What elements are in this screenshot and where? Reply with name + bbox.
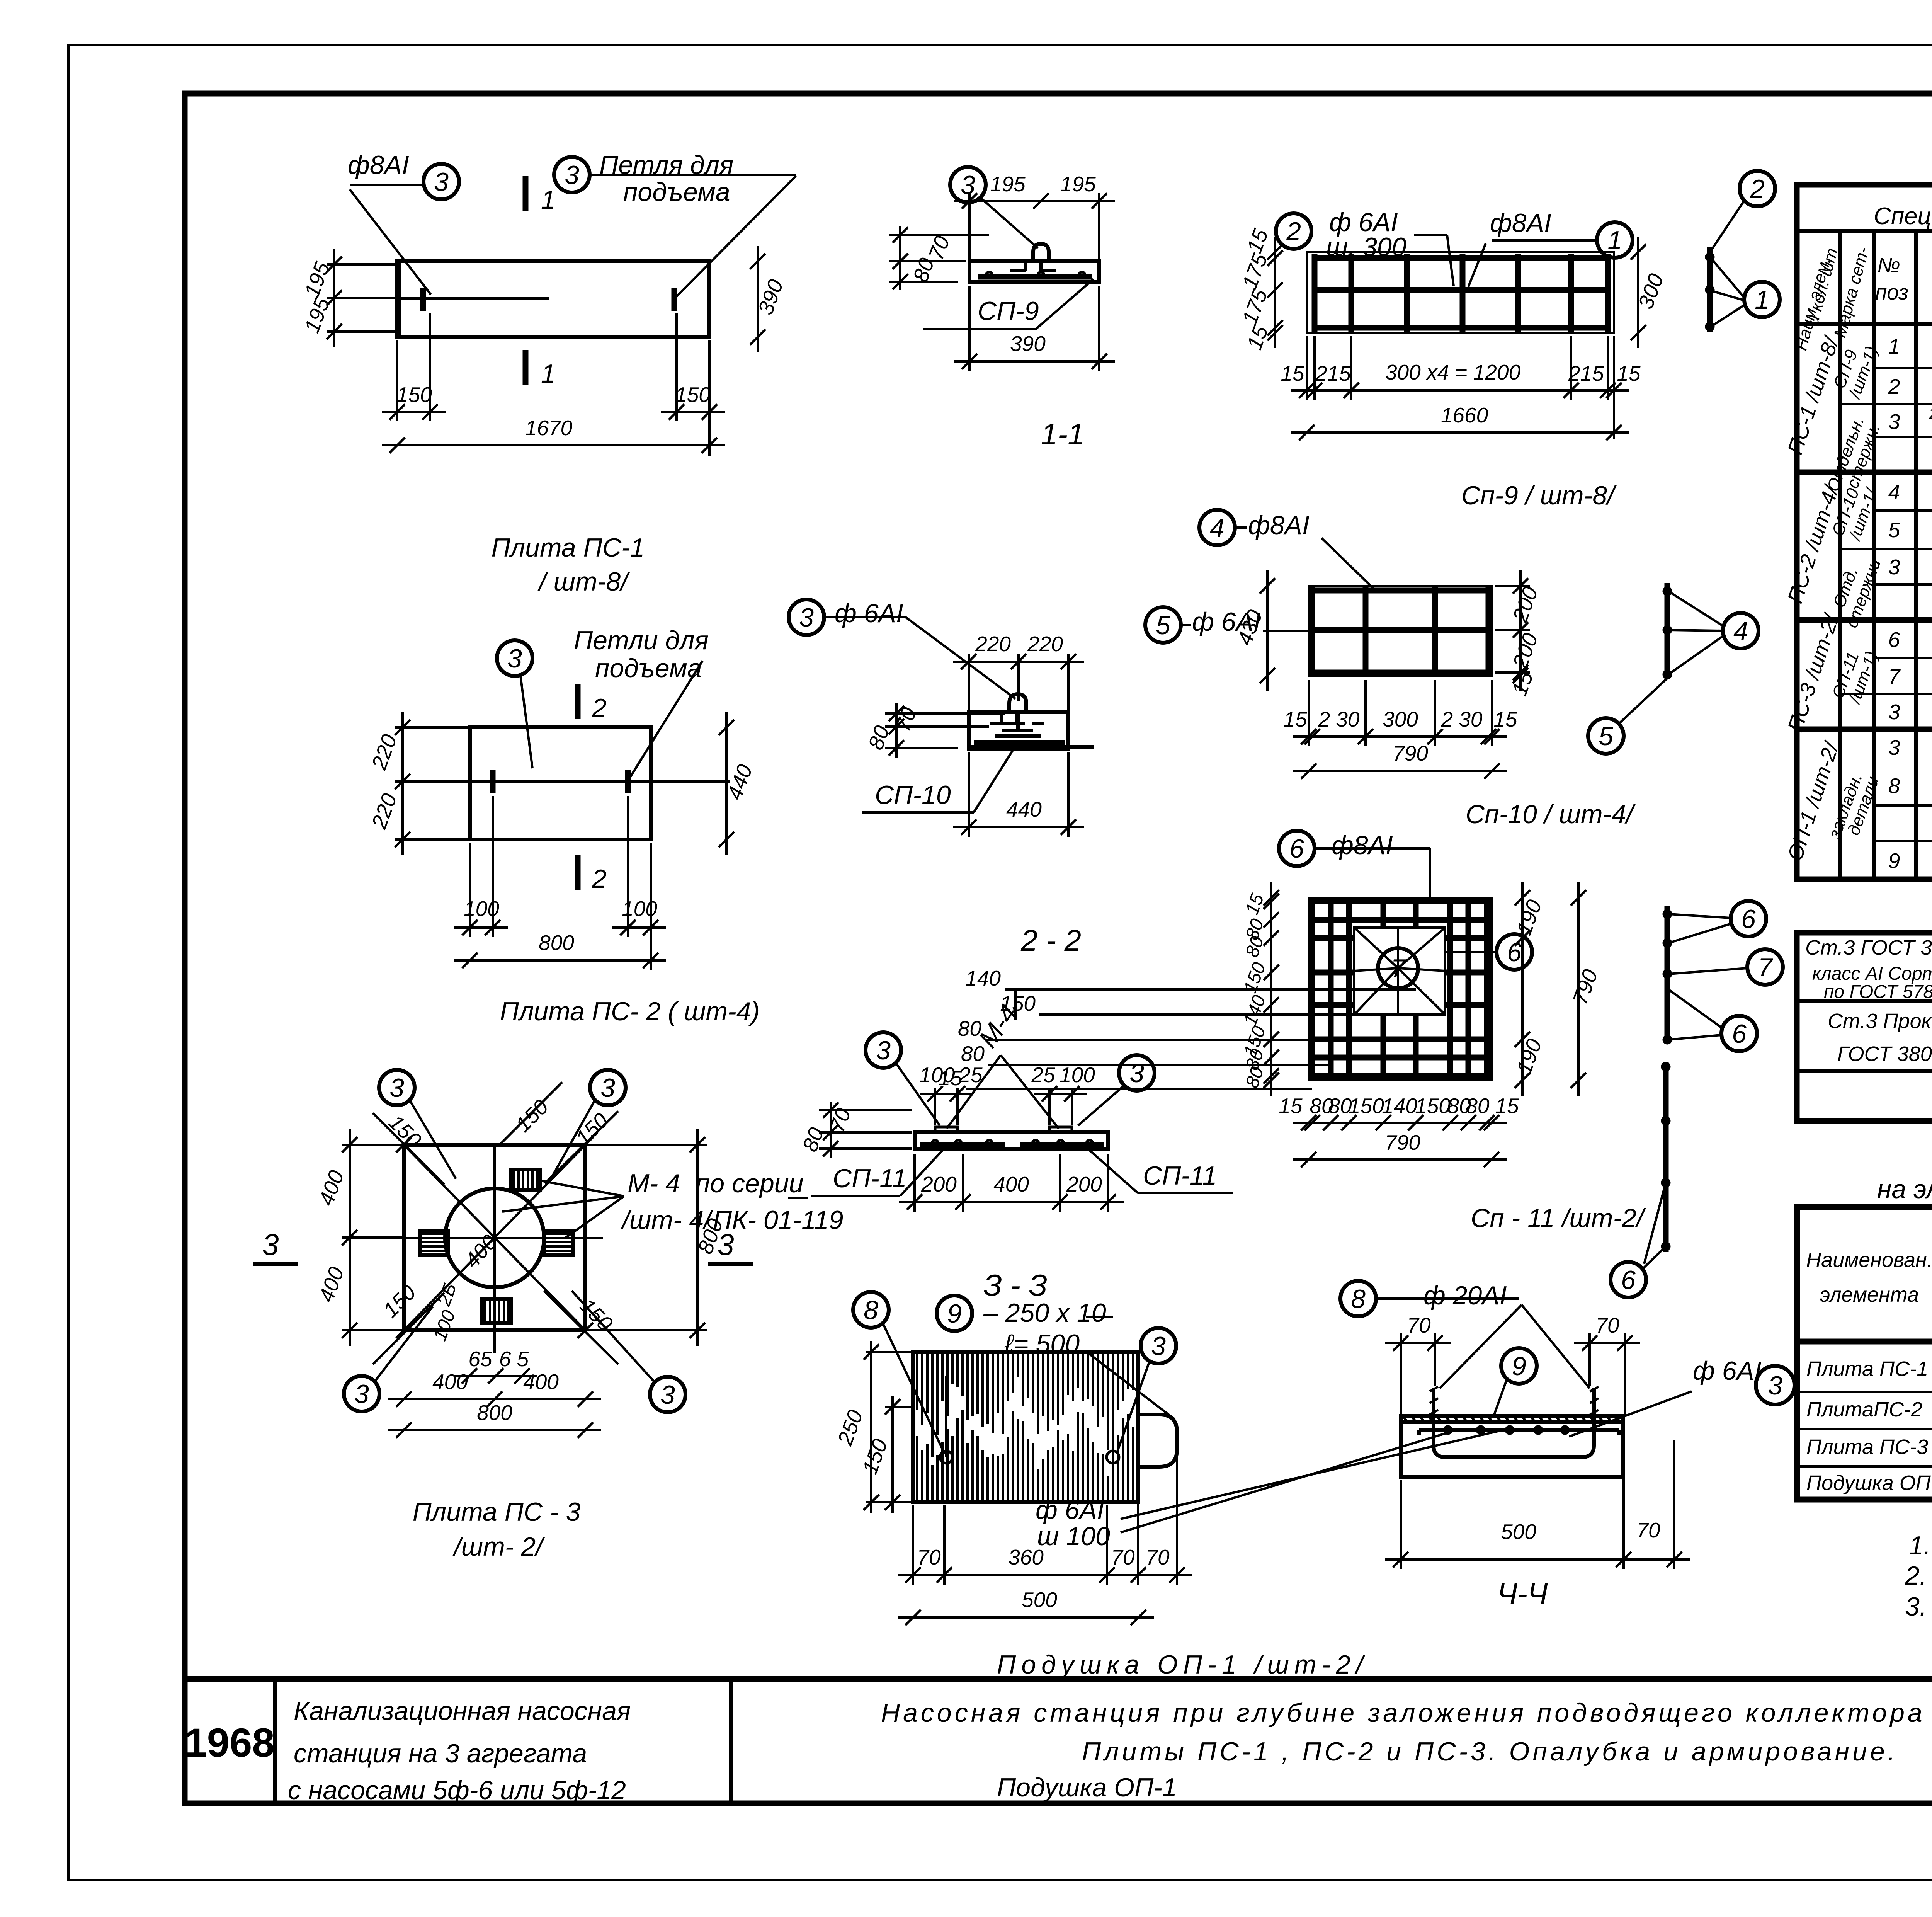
callout circle 6 top <box>1731 901 1766 936</box>
svg-text:150: 150 <box>511 1095 553 1137</box>
bar detail lower part <box>1663 1062 1669 1252</box>
callout circle 4 <box>1723 613 1759 649</box>
svg-text:400: 400 <box>993 1172 1029 1196</box>
svg-text:/шт- 2/: /шт- 2/ <box>452 1532 545 1561</box>
svg-text:Подушка ОП-1: Подушка ОП-1 <box>997 1773 1177 1802</box>
callout circle 6 lower bar <box>1611 1262 1646 1297</box>
svg-text:65: 65 <box>468 1347 492 1371</box>
svg-text:ℓ= 500: ℓ= 500 <box>1004 1329 1080 1359</box>
SP-10 mesh vertical bars <box>1310 587 1315 674</box>
callout circle 5 <box>1588 718 1624 754</box>
svg-text:ф 20АI: ф 20АI <box>1423 1281 1507 1310</box>
svg-text:7: 7 <box>1758 953 1773 982</box>
materials table data row lines <box>1797 1391 1932 1393</box>
svg-text:140: 140 <box>1382 1094 1417 1118</box>
svg-text:Плиты ПС-1 , ПС-2 и ПС-3: Плиты ПС-1 , ПС-2 и ПС-3. Опалубка и арм… <box>1082 1737 1898 1766</box>
SP-10 dim 790 <box>1293 770 1507 772</box>
svg-text:190: 190 <box>1512 1035 1546 1077</box>
svg-text:70: 70 <box>1146 1545 1170 1569</box>
svg-text:ПС-3 /шт-2/: ПС-3 /шт-2/ <box>1783 610 1844 735</box>
svg-text:15: 15 <box>1617 361 1641 385</box>
svg-text:140: 140 <box>1240 993 1270 1029</box>
svg-text:4: 4 <box>1733 616 1748 646</box>
svg-text:15: 15 <box>1242 891 1268 918</box>
svg-text:СП-11: СП-11 <box>833 1164 907 1193</box>
section 2-2 plate <box>969 712 1068 749</box>
svg-text:ОП-1 /шт-2/: ОП-1 /шт-2/ <box>1782 738 1844 864</box>
svg-text:80: 80 <box>1242 933 1268 960</box>
dim 150 left bottom PS-1 <box>382 411 446 413</box>
svg-text:СП-10: СП-10 <box>875 780 951 810</box>
svg-text:5: 5 <box>1599 722 1613 751</box>
svg-text:25: 25 <box>1031 1063 1055 1087</box>
svg-text:1: 1 <box>541 185 556 215</box>
svg-text:подъема: подъема <box>595 654 702 683</box>
svg-text:300: 300 <box>1383 707 1418 731</box>
svg-text:300 х4 = 1200: 300 х4 = 1200 <box>1385 360 1521 384</box>
svg-text:по серии: по серии <box>696 1169 803 1198</box>
svg-text:220: 220 <box>1027 632 1063 656</box>
svg-text:3: 3 <box>1768 1371 1782 1400</box>
dim 800 below PS-3 <box>388 1429 601 1431</box>
section 4-4 concrete block <box>1401 1416 1623 1477</box>
svg-text:400: 400 <box>523 1370 559 1394</box>
svg-text:200: 200 <box>921 1172 957 1196</box>
title block top line <box>185 1676 1932 1682</box>
svg-text:440: 440 <box>1006 797 1042 821</box>
dim 150 top center PS-3 <box>498 1082 562 1146</box>
svg-text:8: 8 <box>1351 1284 1366 1314</box>
svg-text:15: 15 <box>1281 361 1304 385</box>
svg-text:2 - 2: 2 - 2 <box>1020 923 1081 957</box>
section mark 1 bottom <box>523 350 529 385</box>
svg-text:150: 150 <box>378 1280 420 1322</box>
section mark 2 bottom <box>575 855 581 890</box>
svg-text:400: 400 <box>314 1263 349 1305</box>
svg-text:140: 140 <box>965 966 1001 990</box>
svg-text:3: 3 <box>660 1380 675 1410</box>
svg-text:ПлитаПС-2: ПлитаПС-2 <box>1806 1398 1922 1421</box>
svg-text:150: 150 <box>396 383 432 407</box>
SP-9 left dims 15 175 175 15 <box>1274 237 1276 348</box>
svg-text:3: 3 <box>262 1227 279 1262</box>
dims 65 65 below PS-3 <box>454 1375 537 1377</box>
svg-text:3: 3 <box>876 1036 891 1065</box>
SP-9 dim 1660 <box>1291 431 1629 434</box>
SP-11 dim 790 below <box>1293 1158 1507 1161</box>
callout 6 f8AI top left of SP-11 <box>1279 831 1315 866</box>
spec table marka sub lines <box>1840 403 1874 405</box>
svg-text:70: 70 <box>1111 1545 1135 1569</box>
diagonal dims 150 corners PS-3 <box>373 1113 444 1185</box>
svg-text:70: 70 <box>917 1545 941 1569</box>
svg-text:150: 150 <box>675 383 711 407</box>
SP-10 bottom dims 15 230 300 230 15 <box>1293 735 1507 738</box>
leader line to right loop <box>676 176 796 297</box>
svg-text:Наименован.: Наименован. <box>1806 1248 1932 1272</box>
spec table header band lines <box>1797 229 1932 233</box>
svg-text:800: 800 <box>539 931 574 955</box>
plate PS-3 circle opening 400 <box>445 1188 544 1287</box>
svg-text:2 30: 2 30 <box>1318 707 1359 731</box>
section 3-3 bottom meshes <box>920 1142 1005 1148</box>
dims 80 70 left of 2-2 <box>885 712 1005 715</box>
dim 150 right bottom PS-1 <box>661 411 725 413</box>
SP-11 mesh vertical bars <box>1310 899 1315 1078</box>
svg-text:ш 100: ш 100 <box>1037 1522 1110 1551</box>
section 2-2 loop <box>995 694 1041 736</box>
SP-11 bottom dims 15 80 80 150 140 150 80 80 15 <box>1293 1122 1507 1124</box>
svg-text:3: 3 <box>1888 555 1900 579</box>
svg-text:80: 80 <box>958 1016 982 1040</box>
svg-text:Подушка ОП-1 /шт-2/: Подушка ОП-1 /шт-2/ <box>997 1650 1369 1679</box>
svg-text:3: 3 <box>507 644 522 673</box>
svg-text:2Б: 2Б <box>434 1280 461 1309</box>
svg-text:790: 790 <box>1568 966 1602 1008</box>
svg-text:Плита ПС-3: Плита ПС-3 <box>1806 1435 1928 1459</box>
section 4-4 top plate hatched <box>1401 1420 1623 1424</box>
svg-text:6: 6 <box>1289 834 1304 863</box>
svg-text:ф 6АI: ф 6АI <box>1036 1495 1104 1525</box>
svg-text:15: 15 <box>1495 1094 1519 1118</box>
svg-text:№: № <box>1877 253 1900 277</box>
callout circle 6 upper bar bottom <box>1721 1016 1757 1051</box>
SP-11 left rotated dims <box>1270 882 1272 1096</box>
svg-text:СП-9: СП-9 <box>978 296 1039 326</box>
svg-text:3: 3 <box>389 1073 404 1103</box>
leader lines PS-2 loops <box>520 676 532 768</box>
svg-text:215: 215 <box>1315 361 1351 385</box>
svg-text:70: 70 <box>1636 1518 1660 1542</box>
svg-text:5: 5 <box>1156 611 1170 640</box>
dims 70 80 left of 3-3 <box>819 1109 912 1111</box>
podushka dim 500 <box>898 1616 1154 1619</box>
section 4-4 hook hatches <box>1430 1387 1438 1415</box>
SP-10 right dims 200 200 15 <box>1519 570 1522 691</box>
callout 6 right middle of SP-11 <box>1497 934 1532 970</box>
plate PS-1 outline <box>397 261 709 337</box>
podushka OP-1 right hook plate <box>1138 1415 1177 1467</box>
plate PS-3 diagonals <box>404 1145 585 1330</box>
svg-text:1660: 1660 <box>1441 403 1488 427</box>
svg-text:z=40: z=40 <box>1929 403 1932 424</box>
svg-text:2: 2 <box>1286 217 1301 246</box>
dim 220 220 left of PS-2 <box>401 712 404 855</box>
M-4 hatched plate bottom <box>482 1299 511 1323</box>
svg-text:790: 790 <box>1385 1130 1420 1154</box>
svg-text:9: 9 <box>947 1299 962 1328</box>
svg-text:220: 220 <box>367 790 401 832</box>
svg-text:– 250 х 10: – 250 х 10 <box>983 1298 1106 1328</box>
bar detail vertical bar pos1 <box>1707 247 1713 332</box>
section 3-3 M-4 plates embedded <box>935 1127 957 1132</box>
svg-text:Ст.3 ГОСТ 380-50: Ст.3 ГОСТ 380-50 <box>1805 936 1932 959</box>
svg-text:1670: 1670 <box>525 416 573 440</box>
section 1-1 plate <box>969 261 1099 282</box>
svg-text:Плита ПС-1: Плита ПС-1 <box>492 533 645 562</box>
leader line to left loop <box>350 189 431 295</box>
svg-text:Сп - 11 /шт-2/: Сп - 11 /шт-2/ <box>1471 1204 1646 1233</box>
svg-text:Спецификация арматуры на 1 э: Спецификация арматуры на 1 элемент <box>1874 203 1932 230</box>
SP-10 left dim 430 <box>1266 570 1269 691</box>
svg-text:390: 390 <box>1010 332 1046 356</box>
callout 2 f6AI sh300 for SP-9 <box>1276 213 1311 249</box>
svg-text:2: 2 <box>592 864 607 894</box>
svg-text:4: 4 <box>1888 480 1900 504</box>
SP-11 mesh outline <box>1309 898 1492 1080</box>
svg-text:9: 9 <box>1888 849 1900 873</box>
svg-text:200: 200 <box>1508 583 1543 625</box>
svg-text:2: 2 <box>1888 375 1900 398</box>
svg-text:на элементы, показанные на: на элементы, показанные на данном листе <box>1877 1175 1932 1204</box>
svg-text:195: 195 <box>990 172 1026 196</box>
callout f20AI section 4-4 <box>1340 1281 1376 1316</box>
materials table outer box <box>1797 1207 1932 1500</box>
dim 220 220 above 2-2 <box>953 661 1084 663</box>
svg-text:800: 800 <box>477 1401 512 1425</box>
dim 390 right of PS-1 <box>757 246 759 352</box>
svg-text:ПС-1 /шт-8/: ПС-1 /шт-8/ <box>1783 332 1844 457</box>
svg-text:ф8АI: ф8АI <box>348 150 409 180</box>
callout circle 3 PS-3 bottom left <box>344 1376 379 1411</box>
section mark 1 top <box>523 176 529 211</box>
svg-text:Петли для: Петли для <box>574 626 709 655</box>
svg-text:З - З: З - З <box>983 1268 1047 1302</box>
svg-text:3: 3 <box>1888 410 1900 434</box>
svg-text:5: 5 <box>1888 518 1900 542</box>
svg-text:80: 80 <box>961 1042 985 1066</box>
svg-text:элемента: элемента <box>1820 1283 1919 1306</box>
svg-text:поз: поз <box>1875 280 1908 304</box>
callout circle 9 podushka -250x10 <box>937 1296 972 1331</box>
SP-11 mesh opening <box>1354 928 1445 1015</box>
svg-text:6: 6 <box>1888 628 1900 652</box>
svg-text:1: 1 <box>541 359 556 388</box>
dims 80 70 left of section 1-1 <box>889 234 989 236</box>
podushka left dims 150 250 <box>866 1351 912 1353</box>
SP-9 bottom dims 15 215 300x4 215 15 <box>1291 389 1629 392</box>
callout circle 1 fan <box>1744 282 1780 317</box>
callout circle 3 podushka right <box>1141 1328 1176 1364</box>
svg-text:ф 6АI: ф 6АI <box>835 599 903 628</box>
svg-text:150: 150 <box>857 1435 892 1477</box>
svg-text:15: 15 <box>1242 226 1273 256</box>
svg-text:/ шт-8/: / шт-8/ <box>537 567 630 596</box>
callout circle 8 podushka <box>853 1292 889 1328</box>
dims 500 70 below 4-4 <box>1385 1558 1690 1561</box>
svg-text:70: 70 <box>891 704 921 735</box>
svg-text:3: 3 <box>799 603 814 632</box>
svg-text:175: 175 <box>1237 286 1272 327</box>
svg-text:1: 1 <box>1755 285 1769 315</box>
dim 390 below section 1-1 <box>954 360 1115 363</box>
svg-text:6 5: 6 5 <box>499 1347 529 1371</box>
svg-text:200: 200 <box>1066 1172 1102 1196</box>
dim 70 top left 4-4 <box>1385 1342 1451 1344</box>
svg-text:400: 400 <box>432 1370 468 1394</box>
svg-text:по ГОСТ 5781-61: по ГОСТ 5781-61 <box>1824 982 1932 1002</box>
section 3-3 plate <box>915 1132 1108 1149</box>
svg-text:6: 6 <box>1621 1265 1636 1295</box>
svg-text:2: 2 <box>1750 174 1765 204</box>
svg-text:3. В плите ПС-3 должны: 3. В плите ПС-3 должны быть установлены … <box>1905 1592 1932 1621</box>
svg-text:15: 15 <box>939 1066 963 1090</box>
svg-text:215: 215 <box>1568 361 1604 385</box>
f20AI leader roof lines <box>1440 1305 1522 1388</box>
svg-text:1968: 1968 <box>184 1720 275 1765</box>
section mark 2 top <box>575 684 581 719</box>
podushka bottom dims 70 360 70 70 <box>898 1574 1192 1576</box>
spec table thick group lines <box>1797 470 1932 475</box>
callout circle 2 bar top <box>1740 171 1775 206</box>
svg-text:6: 6 <box>1732 1019 1747 1049</box>
SP-9 mesh vertical bars <box>1312 254 1318 332</box>
svg-text:15: 15 <box>1242 322 1273 353</box>
plate PS-1 center line and lifting loops <box>397 297 549 300</box>
svg-text:400: 400 <box>314 1167 349 1209</box>
svg-text:ш. 300: ш. 300 <box>1326 232 1406 262</box>
svg-text:подъема: подъема <box>623 177 730 207</box>
svg-text:3: 3 <box>961 170 975 200</box>
svg-text:ф 6АI: ф 6АI <box>1693 1356 1762 1386</box>
svg-text:3: 3 <box>600 1073 615 1103</box>
svg-text:ф8АI: ф8АI <box>1248 511 1310 540</box>
callout circle 3 section 3-3 right <box>1119 1055 1155 1091</box>
svg-text:Ч-Ч: Ч-Ч <box>1497 1577 1548 1611</box>
svg-text:7: 7 <box>1888 664 1901 688</box>
dim 440 below 2-2 <box>953 826 1084 828</box>
svg-text:1: 1 <box>1888 334 1900 358</box>
svg-text:Подушка ОП-1: Подушка ОП-1 <box>1806 1471 1932 1495</box>
dim 800 right of PS-3 <box>696 1129 699 1346</box>
dim 400 400 below PS-3 <box>388 1398 601 1400</box>
svg-text:6: 6 <box>1741 904 1756 934</box>
svg-text:2: 2 <box>592 693 607 723</box>
svg-text:100: 100 <box>430 1308 459 1344</box>
svg-text:Плита ПС-1: Плита ПС-1 <box>1806 1357 1928 1381</box>
svg-text:3: 3 <box>354 1379 369 1409</box>
svg-text:3: 3 <box>1888 700 1900 724</box>
svg-text:175: 175 <box>1237 250 1272 292</box>
svg-text:9: 9 <box>1512 1352 1526 1381</box>
svg-text:3: 3 <box>565 160 579 190</box>
svg-text:Насосная станция при глубин: Насосная станция при глубине заложения п… <box>881 1698 1932 1728</box>
svg-text:1: 1 <box>1607 226 1622 255</box>
dims 100 100 below PS-2 <box>454 926 508 929</box>
svg-text:220: 220 <box>367 731 401 773</box>
svg-text:ф8АI: ф8АI <box>1490 208 1551 238</box>
svg-text:3: 3 <box>434 167 449 197</box>
plate PS-2 center line and loops <box>470 780 730 783</box>
svg-text:Сп-9 / шт-8/: Сп-9 / шт-8/ <box>1461 481 1617 510</box>
svg-text:195: 195 <box>299 294 334 336</box>
svg-text:М- 4: М- 4 <box>628 1169 680 1198</box>
callout 5 f6AI for SP-10 <box>1145 607 1181 643</box>
svg-text:Плита ПС - 3: Плита ПС - 3 <box>413 1497 581 1527</box>
callout 3 f6AI for 2-2 <box>789 599 824 635</box>
svg-text:Ст.3 Прокат: Ст.3 Прокат <box>1828 1010 1932 1033</box>
svg-text:Канализационная насосная: Канализационная насосная <box>294 1696 631 1726</box>
dim 195 195 left of PS-1 <box>333 249 335 347</box>
callout circle 3 PS-1 left <box>423 164 459 199</box>
SP-11 right dims 190 790 190 <box>1521 882 1524 1096</box>
M-4 hatched plate top <box>511 1170 540 1190</box>
plate PS-3 outline <box>404 1145 585 1330</box>
bar detail pos 6 7 <box>1665 906 1670 1044</box>
podushka OP-1 hatched body <box>913 1352 1138 1502</box>
svg-text:15: 15 <box>1283 707 1307 731</box>
title block divider lines <box>273 1679 277 1803</box>
plate PS-2 outline <box>470 727 651 839</box>
svg-text:3: 3 <box>1129 1059 1144 1088</box>
svg-text:150: 150 <box>1415 1094 1451 1118</box>
M-4 hatched plate left <box>420 1231 448 1255</box>
section 2-2 bottom mesh lines <box>974 740 1065 746</box>
dims 200 400 200 below 3-3 <box>899 1201 1124 1203</box>
svg-text:80: 80 <box>798 1124 828 1155</box>
svg-text:8: 8 <box>864 1296 878 1325</box>
SP-9 right dim 300 <box>1637 237 1639 348</box>
svg-text:220: 220 <box>975 632 1011 656</box>
dim 195 195 above section 1-1 <box>954 200 1115 202</box>
spec table vertical column lines <box>1838 231 1842 879</box>
svg-text:станция на 3 агрегата: станция на 3 агрегата <box>294 1739 587 1768</box>
spec table horizontal row lines <box>1874 367 1932 369</box>
bar detail pos callout 4 5 <box>1665 583 1670 679</box>
SP-10 mesh horizontal bars <box>1312 588 1490 594</box>
svg-text:80: 80 <box>1466 1094 1490 1118</box>
svg-text:15: 15 <box>1493 707 1517 731</box>
svg-text:Плита ПС- 2 ( шт-4): Плита ПС- 2 ( шт-4) <box>500 997 760 1026</box>
svg-text:150: 150 <box>1349 1094 1384 1118</box>
callout circle 3 section 1-1 <box>950 167 986 203</box>
svg-text:3: 3 <box>1888 735 1900 759</box>
section 1-1 bottom reinforcement <box>978 274 1092 280</box>
SP-10 mesh outline <box>1309 586 1492 676</box>
SP-11 circle 7 fan in opening <box>1378 948 1418 988</box>
dim 1670 PS-1 <box>382 444 725 446</box>
PS-3 crosshair lines <box>404 1237 603 1239</box>
svg-text:ПС-2 /шт-4/: ПС-2 /шт-4/ <box>1783 481 1844 606</box>
callout circle 3 PS-3 top right <box>590 1070 626 1105</box>
SP-9 mesh horizontal bars <box>1312 255 1609 261</box>
dim 800 below PS-2 <box>454 959 666 962</box>
M-4 hatched plate right <box>544 1231 573 1255</box>
svg-text:790: 790 <box>1393 741 1428 765</box>
svg-text:СП-11: СП-11 <box>1143 1161 1217 1190</box>
SP-11 mesh horizontal bars <box>1310 899 1490 904</box>
svg-text:1. Маркировочные планы плит: 1. Маркировочные планы плит см. листы АС… <box>1909 1531 1932 1560</box>
svg-text:2 30: 2 30 <box>1440 707 1482 731</box>
callout 4 f8AI for SP-10 <box>1199 510 1235 545</box>
svg-text:70: 70 <box>924 233 954 263</box>
dim 70 top right 4-4 <box>1574 1342 1640 1344</box>
dim 400 400 left of PS-3 <box>349 1129 351 1346</box>
callout circle 9 section 4-4 <box>1501 1348 1537 1384</box>
callout circle 3 PS-3 bottom right <box>650 1377 685 1412</box>
svg-text:с насосами 5ф-6 или 5ф-12: с насосами 5ф-6 или 5ф-12 <box>288 1776 626 1805</box>
callout circle 3 section 3-3 left <box>866 1032 901 1068</box>
svg-text:500: 500 <box>1022 1588 1057 1612</box>
svg-text:Сп-10 / шт-4/: Сп-10 / шт-4/ <box>1466 800 1636 829</box>
svg-text:70: 70 <box>1595 1313 1619 1337</box>
svg-text:2. Указания по эл. сварке а: 2. Указания по эл. сварке арматурных сет… <box>1905 1561 1932 1590</box>
svg-text:4: 4 <box>1210 513 1225 543</box>
callout circle 3 PS-2 <box>497 640 532 676</box>
vyborka table grid <box>1797 933 1932 1121</box>
svg-text:1-1: 1-1 <box>1041 417 1085 451</box>
svg-text:100: 100 <box>1060 1063 1095 1087</box>
